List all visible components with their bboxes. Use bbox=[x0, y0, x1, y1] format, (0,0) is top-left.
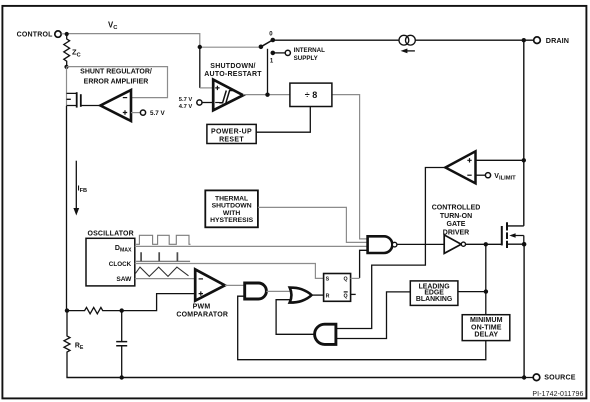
current source internal supply bbox=[399, 35, 415, 53]
node IFB arrow bbox=[73, 161, 87, 216]
wire left feedback vertical (gray upper part) bbox=[66, 67, 68, 106]
node VC junction at comparator column bbox=[198, 45, 202, 49]
transistor shunt MOSFET bbox=[67, 92, 101, 107]
transistor Q1 power MOSFET bbox=[502, 222, 524, 248]
svg-text:HYSTERESIS: HYSTERESIS bbox=[210, 217, 254, 224]
wire NAND output to gate driver bbox=[397, 243, 444, 245]
wire left vertical down to sense node bbox=[66, 106, 68, 311]
node drain junction bbox=[522, 38, 526, 42]
wire PWM comparator output to AND gate (gray) bbox=[225, 284, 245, 286]
svg-text:DRAIN: DRAIN bbox=[546, 36, 569, 45]
svg-text:COMPARATOR: COMPARATOR bbox=[176, 312, 228, 319]
node LEB input junction bbox=[484, 289, 488, 293]
wire CLOCK output line to latch S (gray) bbox=[135, 264, 324, 279]
nand-gate U3 bbox=[368, 236, 397, 253]
node drain sense junction bbox=[522, 158, 526, 162]
svg-text:4.7 V: 4.7 V bbox=[179, 104, 193, 110]
svg-text:÷ 8: ÷ 8 bbox=[305, 90, 317, 100]
buffer controlled turn-on gate driver bbox=[432, 205, 481, 254]
svg-text:POWER-UP: POWER-UP bbox=[211, 129, 252, 136]
box OSCILLATOR bbox=[86, 230, 135, 286]
or-gate O1 bbox=[290, 288, 312, 303]
wire feedback loop to error amp minus input (gray) bbox=[67, 67, 168, 98]
wire bottom source rail bbox=[66, 377, 524, 379]
wire ILIMIT comparator output to AND A2 bbox=[336, 168, 446, 329]
svg-text:TURN-ON: TURN-ON bbox=[440, 213, 472, 220]
terminal CONTROL bbox=[17, 31, 62, 39]
svg-text:SOURCE: SOURCE bbox=[544, 374, 576, 382]
wire LEB right side to gate node bbox=[458, 291, 486, 293]
svg-text:BLANKING: BLANKING bbox=[416, 296, 452, 303]
svg-text:SHUTDOWN: SHUTDOWN bbox=[212, 203, 252, 210]
svg-text:THERMAL: THERMAL bbox=[215, 195, 248, 202]
svg-text:GATE: GATE bbox=[447, 221, 466, 228]
wire MOSFET source down to source rail bbox=[523, 244, 525, 377]
svg-text:DELAY: DELAY bbox=[474, 330, 498, 338]
wire shutdown comparator output to divide-by-8 (gray) bbox=[243, 95, 368, 239]
wire sense node to PWM plus input bbox=[122, 294, 196, 311]
wire gate node down to LEB and MIN delay bbox=[485, 244, 487, 314]
wire drain vertical bbox=[523, 40, 525, 226]
box LEADING EDGE BLANKING bbox=[410, 281, 458, 306]
wire A1 output to OR gate (gray) bbox=[266, 290, 290, 292]
wire LEB output to AND A2 lower input bbox=[336, 292, 410, 339]
terminal 5.7 V reference bbox=[131, 110, 166, 117]
waveform CLOCK pulses bbox=[136, 252, 190, 261]
resistor RE bbox=[64, 311, 84, 378]
svg-text:AUTO-RESTART: AUTO-RESTART bbox=[204, 71, 262, 78]
waveform SAW triangle wave bbox=[135, 267, 188, 276]
svg-text:CLOCK: CLOCK bbox=[109, 261, 132, 268]
svg-text:S: S bbox=[326, 277, 330, 283]
svg-text:5.7 V: 5.7 V bbox=[179, 97, 193, 103]
switch auto-restart (pole, blade, contacts 0/1) bbox=[259, 32, 276, 65]
divider U2 divide-by-8 bbox=[290, 83, 332, 106]
node source rail junction bbox=[522, 375, 526, 379]
node comparator output junction bbox=[265, 93, 269, 97]
op-amp shunt regulator / error amplifier bbox=[80, 69, 152, 121]
wire ILIMIT plus input to drain sense bbox=[476, 159, 524, 161]
box THERMAL SHUTDOWN WITH HYSTERESIS bbox=[205, 190, 258, 227]
svg-text:CONTROL: CONTROL bbox=[17, 32, 54, 39]
svg-text:PWM: PWM bbox=[193, 303, 211, 310]
svg-text:5.7 V: 5.7 V bbox=[150, 110, 166, 117]
svg-text:PI-1742-011796: PI-1742-011796 bbox=[532, 391, 583, 398]
box POWER-UP RESET bbox=[207, 124, 256, 143]
wire DMAX output line (gray) bbox=[135, 245, 368, 247]
node gate drive junction bbox=[484, 242, 488, 246]
terminal DRAIN bbox=[534, 36, 569, 45]
svg-text:OSCILLATOR: OSCILLATOR bbox=[88, 230, 134, 237]
svg-text:SHUTDOWN/: SHUTDOWN/ bbox=[210, 63, 255, 70]
node sense junction right bbox=[120, 308, 124, 312]
capacitor CE bbox=[116, 311, 127, 378]
and-gate A1 (PWM gating) bbox=[245, 283, 267, 299]
node shunt feedback junction bbox=[64, 65, 68, 69]
op-amp PWM comparator bbox=[176, 269, 228, 318]
waveform DMAX square wave bbox=[136, 235, 190, 244]
wire SAW output line (gray) bbox=[135, 278, 195, 280]
box MINIMUM ON-TIME DELAY bbox=[462, 315, 510, 341]
wire thermal shutdown output to NAND (gray) bbox=[258, 207, 368, 242]
wire VC net (CONTROL to switch pole, gray) bbox=[61, 20, 261, 47]
terminal 5.7V/4.7V threshold input bbox=[179, 97, 213, 110]
node VC junction at control bbox=[65, 32, 69, 36]
wire latch Qbar stub bbox=[351, 293, 356, 295]
svg-text:SUPPLY: SUPPLY bbox=[294, 55, 319, 62]
op-amp current limit comparator bbox=[445, 151, 475, 183]
wire driver output to power MOSFET gate bbox=[466, 243, 502, 245]
terminal SOURCE bbox=[524, 374, 576, 382]
svg-text:Q: Q bbox=[344, 277, 348, 283]
wire A2 output to OR gate lower input bbox=[276, 300, 315, 335]
and-gate A2 (left pointing) bbox=[315, 324, 336, 344]
svg-text:RESET: RESET bbox=[219, 137, 244, 144]
node capacitor bottom junction bbox=[120, 375, 124, 379]
svg-text:INTERNAL: INTERNAL bbox=[294, 47, 325, 54]
wire power-up reset to divider bbox=[256, 107, 310, 133]
resistor R sense (horizontal) bbox=[67, 307, 122, 313]
wire junction up to switch pole bbox=[267, 49, 269, 95]
svg-text:R: R bbox=[326, 293, 330, 299]
svg-text:ERROR AMPLIFIER: ERROR AMPLIFIER bbox=[84, 79, 149, 86]
svg-text:WITH: WITH bbox=[223, 210, 240, 217]
comparator shutdown/auto-restart bbox=[200, 47, 262, 110]
node sense junction left bbox=[65, 308, 69, 312]
latch SR bbox=[324, 274, 351, 302]
svg-text:DRIVER: DRIVER bbox=[443, 229, 469, 236]
wire O1 output to latch R bbox=[312, 294, 325, 296]
terminal INTERNAL SUPPLY bbox=[273, 47, 325, 62]
svg-text:SAW: SAW bbox=[116, 276, 132, 283]
wire latch Q output to NAND (gray stub then black up) bbox=[351, 277, 360, 279]
resistor ZC bbox=[64, 34, 81, 67]
wire MIN delay output to AND A1 lower input bbox=[238, 296, 486, 360]
wire top drain rail bbox=[273, 39, 534, 41]
node MOSFET source junction bbox=[522, 242, 527, 247]
svg-text:CONTROLLED: CONTROLLED bbox=[432, 205, 481, 212]
svg-text:Q: Q bbox=[344, 293, 348, 299]
svg-text:SHUNT REGULATOR/: SHUNT REGULATOR/ bbox=[80, 69, 152, 76]
terminal VILIMIT bbox=[476, 173, 517, 182]
